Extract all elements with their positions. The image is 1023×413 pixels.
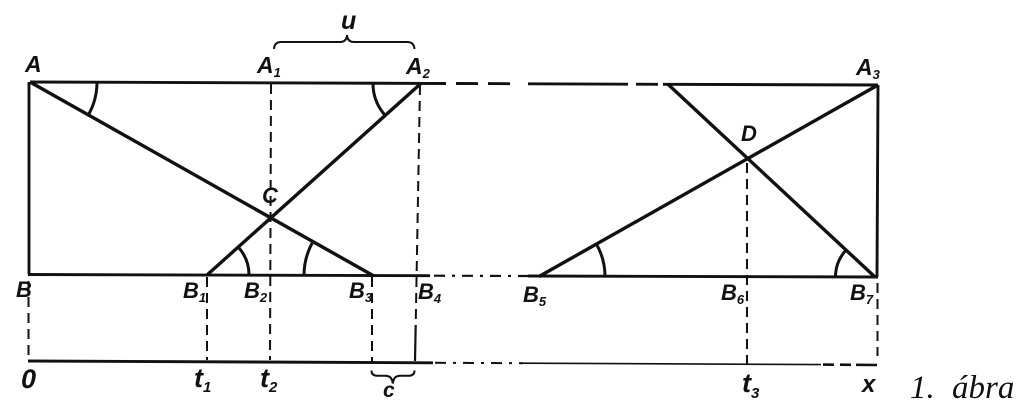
svg-text:A2: A2 (405, 53, 431, 81)
svg-text:A3: A3 (855, 54, 881, 82)
angle arc at B7 (836, 250, 847, 277)
svg-text:B4: B4 (418, 279, 442, 306)
B line dash-dot middle (434, 275, 528, 277)
angle arc at A (88, 84, 97, 115)
svg-text:x: x (860, 371, 877, 398)
vertical solid bottom B4 (414, 325, 417, 361)
top line solid right to A3 (663, 83, 878, 87)
svg-text:A: A (24, 51, 42, 77)
svg-text:B: B (16, 277, 32, 302)
vertical dashed below B7 (877, 283, 879, 356)
axis dash-dot (435, 362, 523, 364)
svg-text:B7: B7 (850, 280, 874, 307)
vertical dashed D-B6-t3 (746, 163, 748, 364)
svg-text:c: c (383, 379, 395, 402)
svg-text:B3: B3 (349, 278, 373, 305)
svg-text:C: C (262, 183, 279, 208)
right vertical A3 to B7 (877, 85, 878, 277)
left vertical dashed below B (28, 281, 30, 359)
vertical dashed B1-t1 (206, 277, 208, 360)
diagonal B1 to A2 (207, 83, 421, 275)
diagonal top to B7 (668, 84, 875, 277)
svg-text:A1: A1 (256, 52, 281, 80)
angle arc at B5 (596, 244, 605, 277)
vertical dashed A1-C-t2 (270, 84, 271, 360)
svg-text:B1: B1 (183, 278, 206, 305)
vertical dashed A2-B4 (416, 85, 420, 325)
axis dashed right (823, 363, 877, 366)
angle arc at A2 (373, 83, 385, 115)
svg-text:B6: B6 (721, 280, 745, 307)
diagonal A to B3 (30, 82, 373, 276)
angle arc at B3 (304, 242, 313, 276)
svg-text:B2: B2 (244, 278, 268, 305)
axis thin solid right (760, 363, 821, 365)
brace c under axis (372, 371, 415, 384)
svg-text:t3: t3 (742, 368, 760, 402)
svg-text:ábra: ábra (952, 370, 1014, 406)
B line solid right (528, 276, 878, 277)
svg-text:u: u (341, 7, 356, 35)
svg-text:0: 0 (21, 364, 36, 394)
B line solid left (28, 275, 430, 276)
diagonal B5 to A3 (539, 85, 878, 277)
top line solid A to A2 (30, 82, 425, 83)
svg-text:B5: B5 (523, 282, 547, 309)
svg-text:D: D (741, 121, 757, 146)
angle arc at B1 (238, 247, 249, 275)
svg-text:t1: t1 (194, 363, 211, 396)
left vertical AB (28, 82, 31, 275)
svg-text:1.: 1. (910, 370, 935, 406)
axis thin solid middle (523, 363, 760, 364)
svg-text:t2: t2 (260, 363, 278, 396)
top line dashed middle (424, 82, 658, 86)
vertical dashed B3 (371, 277, 373, 362)
axis line solid left (28, 361, 433, 363)
brace u over A1-A2 (274, 35, 415, 49)
